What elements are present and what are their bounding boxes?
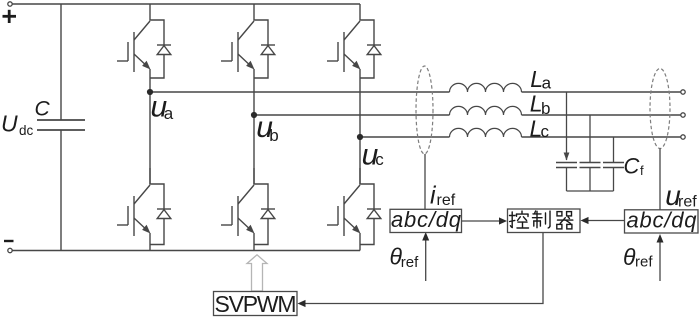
svg-text:a: a [542,73,552,92]
svg-text:ref: ref [635,254,653,271]
svg-text:ref: ref [437,192,456,209]
svg-text:dc: dc [19,123,34,138]
svg-text:SVPWM: SVPWM [215,291,297,317]
svg-text:ref: ref [401,254,419,271]
svg-text:ref: ref [678,194,697,211]
svg-text:a: a [164,104,174,123]
svg-text:C: C [35,98,51,121]
svg-text:abc/dq: abc/dq [627,208,698,233]
svg-text:c: c [375,150,384,169]
svg-text:abc/dq: abc/dq [391,207,462,232]
svg-text:c: c [541,122,550,141]
svg-text:b: b [269,126,278,145]
svg-text:b: b [541,99,550,118]
svg-text:C: C [624,153,640,178]
svg-text:U: U [1,110,18,136]
svg-text:f: f [640,163,644,178]
